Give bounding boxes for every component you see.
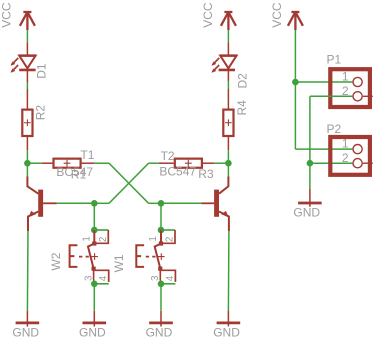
- transistor T2 emitter pin: [219, 212, 229, 232]
- wire VCC down to P1 node: [294, 30, 296, 82]
- LED D1 anode pin: [26, 42, 28, 55]
- wire crossover to W1 node: [149, 202, 161, 204]
- ground GND symbol (W1): [149, 321, 173, 324]
- connector P1 body: [330, 69, 370, 107]
- ground GND symbol (T2): [217, 321, 241, 324]
- resistor R3: [175, 159, 202, 168]
- resistor R4 bottom pin: [227, 137, 229, 150]
- ground GND pin (W1): [160, 311, 162, 327]
- wire W1 to GND: [160, 284, 162, 311]
- LED D2 cathode pin: [227, 70, 229, 81]
- svg-text:R2: R2: [33, 105, 47, 121]
- transistor T2 base bar: [214, 190, 219, 217]
- svg-text:R4: R4: [235, 100, 249, 116]
- svg-text:VCC: VCC: [0, 2, 14, 28]
- svg-text:4: 4: [98, 275, 109, 281]
- wire crossover to W2 node: [94, 202, 109, 204]
- svg-text:GND: GND: [146, 325, 173, 339]
- svg-text:2: 2: [165, 236, 176, 242]
- wire VCC to D1 anode: [26, 30, 28, 42]
- connector P1 pin 1: [353, 77, 362, 86]
- switch W1 pin 1: [160, 230, 162, 243]
- wire W2 branch down: [93, 203, 95, 230]
- resistor R3 left pin: [159, 162, 174, 164]
- wire D1 cathode to R2: [26, 83, 28, 89]
- svg-text:GND: GND: [12, 325, 39, 339]
- ground GND pin (right): [309, 189, 311, 207]
- svg-text:R3: R3: [198, 167, 214, 181]
- resistor R1 left pin: [42, 162, 53, 164]
- switch W2 actuator: [70, 245, 78, 267]
- svg-text:BC547: BC547: [159, 165, 196, 179]
- svg-text:D2: D2: [236, 73, 250, 89]
- transistor T1 base pin: [43, 202, 56, 204]
- svg-text:4: 4: [165, 275, 176, 281]
- wire node down to GND: [309, 163, 311, 189]
- switch W1 pin 2 bracket: [161, 229, 175, 231]
- switch W2 origin cross: [91, 253, 98, 260]
- switch W1 actuator: [136, 245, 144, 267]
- wire VCC down to P2 elbow: [294, 82, 296, 149]
- svg-text:2: 2: [342, 151, 349, 165]
- switch W2 contact arm: [88, 244, 94, 268]
- power symbol VCC (middle): [221, 12, 236, 30]
- connector P2 body: [330, 137, 370, 175]
- junction node B (T2 collector / R4 / R3): [225, 160, 232, 167]
- svg-text:1: 1: [342, 137, 349, 151]
- junction node VCC / P1 pin 1: [292, 79, 299, 86]
- wire W1 branch down: [160, 203, 162, 230]
- svg-text:P2: P2: [327, 122, 342, 136]
- wire crossover diagonal R1 to T2 base net: [109, 163, 149, 203]
- wire R1 to crossover: [94, 162, 109, 164]
- wire node B down to T2 collector: [227, 163, 229, 176]
- svg-text:T1: T1: [80, 148, 94, 162]
- svg-text:GND: GND: [293, 206, 320, 220]
- svg-text:3: 3: [150, 275, 161, 281]
- ground GND pin (W2): [93, 311, 95, 327]
- transistor T1 emitter arrow: [29, 211, 36, 217]
- transistor T2 base pin: [202, 202, 215, 204]
- junction node P1.2 / P2.2 / GND: [307, 160, 314, 167]
- wire VCC to D2 anode: [227, 30, 229, 42]
- wire crossover diagonal R3 to T1 base net: [109, 163, 149, 203]
- junction node A (T1 collector / R2 / R1): [24, 160, 31, 167]
- wire to P1 pin 1: [295, 81, 352, 83]
- wire W2 to GND: [93, 284, 95, 311]
- LED D2: [219, 56, 237, 70]
- svg-text:3: 3: [83, 275, 94, 281]
- connector P2 pin 2: [353, 159, 362, 168]
- svg-text:GND: GND: [213, 325, 240, 339]
- junction node W2 / T1 base: [91, 200, 98, 207]
- wire T2 base to W1 node: [161, 202, 202, 204]
- wire D2 cathode to R4: [227, 81, 229, 89]
- LED D1: [19, 56, 36, 70]
- LED D1 cathode pin: [26, 70, 28, 83]
- svg-text:1: 1: [148, 236, 159, 242]
- switch W2 pin 3: [92, 267, 96, 271]
- junction W1 pins 1-2: [158, 227, 165, 234]
- wire down to P2 pin 2 node: [309, 96, 311, 163]
- svg-text:P1: P1: [327, 52, 342, 66]
- svg-text:D1: D1: [34, 63, 48, 79]
- transistor T1 emitter pin: [28, 212, 38, 232]
- switch W2 pin 1: [93, 230, 95, 243]
- transistor T1 base bar: [38, 190, 43, 217]
- ground GND pin (T2): [227, 310, 229, 326]
- wire T1 base to W2 node: [57, 202, 95, 204]
- svg-text:T2: T2: [161, 149, 175, 163]
- connector P1 pin 2: [353, 92, 362, 101]
- switch W2 pin 4 bracket: [95, 270, 109, 282]
- junction W2 pins 1-2: [91, 227, 98, 234]
- switch W2 pin 2 bracket: [94, 229, 108, 231]
- transistor T2 collector pin: [219, 177, 228, 194]
- ground GND symbol (W2): [83, 321, 107, 324]
- junction W1 pins 3-4: [158, 281, 165, 288]
- wire node A down to T1 collector: [26, 163, 28, 176]
- resistor R2 top pin: [26, 89, 28, 109]
- resistor R3 right pin: [203, 162, 214, 164]
- svg-text:W1: W1: [112, 254, 126, 272]
- wire T1 emitter to GND: [26, 231, 29, 311]
- switch W1 actuator link (dashed): [146, 256, 156, 258]
- wire T2 emitter to GND: [227, 231, 230, 310]
- ground GND pin (T1): [26, 311, 28, 327]
- power symbol VCC (left): [20, 12, 35, 30]
- switch W2 actuator link (dashed): [79, 256, 89, 258]
- junction node W1 / T2 base: [158, 200, 165, 207]
- svg-text:2: 2: [98, 236, 109, 242]
- resistor R1: [54, 159, 81, 168]
- resistor R4: [223, 110, 233, 136]
- wire node A to R1: [27, 162, 41, 164]
- wire R4 to T2 collector node: [227, 150, 229, 163]
- svg-text:GND: GND: [79, 325, 106, 339]
- wire to P2 pin 1: [295, 148, 352, 150]
- svg-text:1: 1: [81, 236, 92, 242]
- switch W1 pin 4 bracket: [161, 270, 175, 282]
- connector P2 pin 1: [353, 145, 362, 154]
- junction W2 pins 3-4: [91, 281, 98, 288]
- switch W1 origin cross: [158, 253, 165, 260]
- wire to P2 pin 2: [310, 162, 352, 164]
- svg-text:BC547: BC547: [56, 165, 93, 179]
- transistor T1 collector pin: [27, 177, 38, 194]
- wire R3 to crossover: [149, 162, 159, 164]
- wire P1 pin 2 left: [310, 95, 352, 97]
- ground GND symbol (T1): [16, 321, 40, 324]
- power symbol VCC (right): [288, 12, 303, 30]
- wire node B to R3: [214, 162, 228, 164]
- wire R2 to T1 collector node: [26, 150, 28, 163]
- switch W1 pin 3: [158, 267, 162, 271]
- resistor R1 right pin: [82, 162, 94, 164]
- transistor T2 emitter arrow: [221, 211, 228, 217]
- svg-text:VCC: VCC: [201, 2, 215, 28]
- switch W1 contact arm: [155, 244, 161, 268]
- resistor R2: [22, 110, 32, 136]
- svg-text:VCC: VCC: [270, 2, 284, 28]
- svg-text:W2: W2: [49, 252, 63, 270]
- LED D2 anode pin: [227, 42, 229, 55]
- svg-text:1: 1: [342, 70, 349, 84]
- resistor R4 top pin: [227, 89, 229, 109]
- resistor R2 bottom pin: [26, 137, 28, 150]
- ground GND symbol (right): [298, 202, 322, 205]
